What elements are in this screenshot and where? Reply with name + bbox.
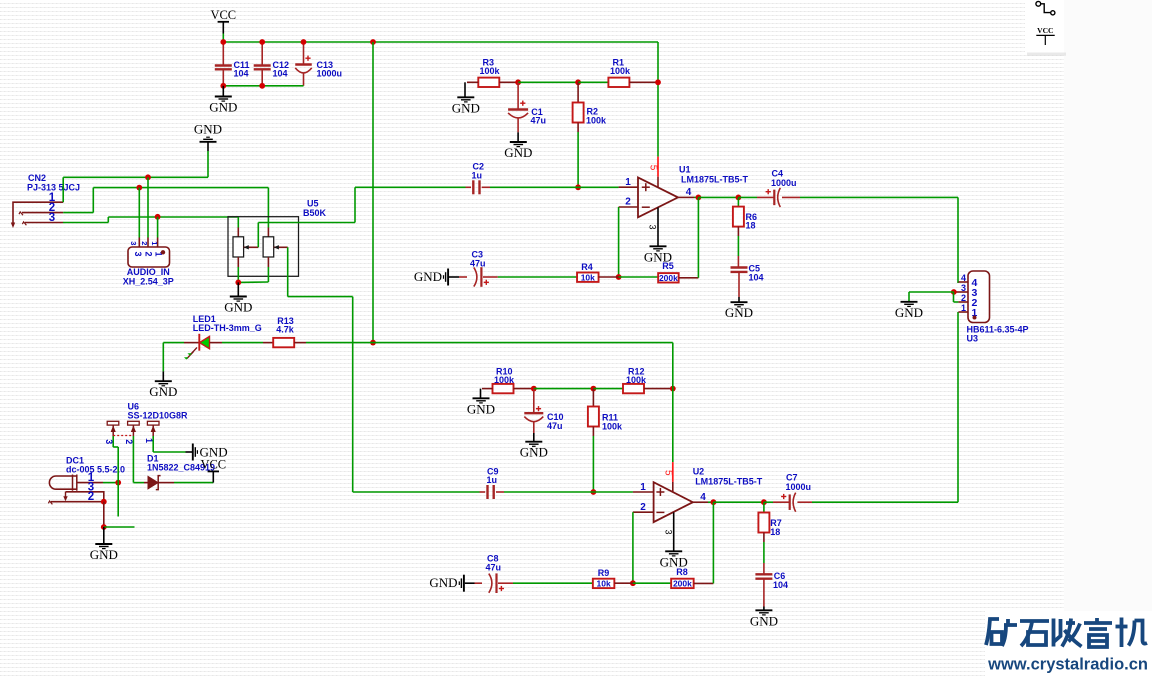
DC1 pin3 switch arm xyxy=(65,492,67,498)
svg-text:U1: U1 xyxy=(679,165,691,175)
svg-text:GND: GND xyxy=(209,100,237,115)
capacitor C13 top pin xyxy=(303,42,305,65)
wire to AUDIO_IN pin2 xyxy=(147,177,149,237)
wire C9 to node xyxy=(504,491,593,493)
wire pins23 down xyxy=(103,502,105,527)
U2 pin 4 stub xyxy=(693,501,708,503)
wire gnd down xyxy=(207,151,209,177)
junction R2/C2/U1 pin1 xyxy=(575,184,581,190)
junction VCC/C13 xyxy=(301,39,307,45)
C9 left pin xyxy=(480,491,486,493)
wire bias ch1 xyxy=(518,81,578,83)
AUDIO_IN pin 2 stub xyxy=(147,238,149,248)
pot U5 right element body xyxy=(263,237,274,257)
R6 bottom pin xyxy=(737,227,739,236)
wire R7 top xyxy=(763,502,765,512)
wire R4 to R5 xyxy=(619,276,659,278)
wire C2 to node xyxy=(490,186,578,188)
C10 top pin xyxy=(533,389,535,413)
svg-text:3: 3 xyxy=(663,529,673,534)
ground (C5) xyxy=(731,302,748,307)
svg-text:3: 3 xyxy=(104,439,114,444)
junction DC gnd xyxy=(101,524,107,530)
pot R top pin xyxy=(267,228,269,237)
ground (U1) xyxy=(650,246,667,251)
LED1 symbol xyxy=(198,334,200,351)
D1 cathode pin xyxy=(158,482,174,484)
svg-text:10k: 10k xyxy=(581,273,595,283)
connector CN2 pin 1 (tip) xyxy=(13,202,63,224)
switch U6 pin 3 pad xyxy=(107,421,119,425)
wire R wiper down xyxy=(287,247,289,296)
AUDIO_IN pin1 marker dot xyxy=(161,250,165,254)
capacitor C9 (1u) xyxy=(488,485,494,499)
C13 plus mark xyxy=(305,56,310,61)
wire gnd rail to CN2 pin1 xyxy=(63,176,208,178)
svg-text:10k: 10k xyxy=(597,579,611,589)
svg-text:47u: 47u xyxy=(470,259,486,269)
wire xyxy=(708,501,713,503)
wire DC1 pin1 xyxy=(103,482,118,484)
C1 top pin xyxy=(517,82,519,109)
resistor R2 (100k) xyxy=(573,103,584,123)
wire to AUDIO_IN pin1 xyxy=(157,217,159,238)
svg-text:3: 3 xyxy=(49,212,55,224)
svg-text:GND: GND xyxy=(149,384,177,399)
wire output to R6 xyxy=(698,196,738,198)
U1 pin 2 stub xyxy=(619,206,638,208)
svg-text:www.crystalradio.cn: www.crystalradio.cn xyxy=(987,656,1148,674)
svg-text:2: 2 xyxy=(961,293,966,303)
wire VCC to rail xyxy=(222,34,224,43)
svg-text:GND: GND xyxy=(467,401,495,416)
wire pot R bottom xyxy=(267,267,269,282)
gnd stub xyxy=(103,527,105,544)
R11 top pin xyxy=(592,389,594,407)
svg-text:GND: GND xyxy=(414,269,442,284)
resistor R3 (100k) xyxy=(478,78,499,87)
R9 right pin xyxy=(614,582,633,584)
svg-text:3: 3 xyxy=(129,241,138,245)
wire CN2 pin2 xyxy=(63,212,93,214)
R13 right pin xyxy=(294,342,306,344)
ground (R10) xyxy=(473,398,490,403)
CN2 pin2 hook contact xyxy=(19,212,23,215)
svg-text:2: 2 xyxy=(88,491,94,503)
wire rail ch2 to U2 pin5 xyxy=(672,389,674,463)
wire R wiper down to ch2 xyxy=(352,297,354,492)
svg-text:1: 1 xyxy=(150,241,159,245)
junction R11/C9/U2 pin1 xyxy=(591,489,597,495)
pot U5 right wiper xyxy=(274,246,288,248)
AUDIO_IN pin 3 stub xyxy=(138,238,140,248)
connector CN2 pin 2 xyxy=(22,212,63,214)
wire LED row to ch2 rail xyxy=(373,342,673,344)
DC1 pin 3 xyxy=(66,492,104,502)
R4 right pin xyxy=(599,276,619,278)
svg-text:2: 2 xyxy=(640,502,646,513)
C4 plus mark xyxy=(766,189,771,194)
svg-text:100k: 100k xyxy=(480,66,501,76)
C12 bottom pin xyxy=(261,69,263,86)
wire node to U2 pin1 xyxy=(593,491,633,493)
svg-text:VCC: VCC xyxy=(1037,26,1053,35)
U2 minus marker xyxy=(656,511,664,513)
svg-text:GND: GND xyxy=(90,547,118,562)
svg-text:200k: 200k xyxy=(659,273,678,283)
capacitor C12 xyxy=(254,66,271,70)
svg-text:104: 104 xyxy=(234,69,249,79)
wire jog up xyxy=(354,187,356,222)
svg-text:LM1875L-TB5-T: LM1875L-TB5-T xyxy=(695,477,763,487)
svg-text:R9: R9 xyxy=(598,568,610,578)
U1 pin 5 lower xyxy=(657,177,659,188)
R11 bottom pin xyxy=(592,427,594,437)
R12 right pin xyxy=(644,388,673,390)
wire R5 up to output xyxy=(697,197,699,277)
wire R6 top xyxy=(737,197,739,206)
connector AUDIO_IN body xyxy=(128,247,170,267)
svg-text:2: 2 xyxy=(140,241,149,245)
R8 right pin xyxy=(694,582,714,584)
gnd stem xyxy=(465,582,475,584)
R3 right pin xyxy=(499,81,518,83)
wire to R12 xyxy=(593,388,623,390)
wire C8 to R9 xyxy=(513,582,593,584)
wire pin3 jog down xyxy=(953,292,955,302)
U1 plus marker xyxy=(642,183,650,191)
wire C3 to R4 xyxy=(498,276,577,278)
junction R12/rail ch2 xyxy=(670,386,676,392)
svg-text:47u: 47u xyxy=(547,421,563,431)
wire bias ch2 xyxy=(534,388,594,390)
wire D1 to VCC xyxy=(174,482,213,484)
junction R10/C10 xyxy=(531,386,537,392)
R10 right pin xyxy=(514,388,534,390)
gnd stub xyxy=(207,142,209,151)
capacitor C6 (104) xyxy=(755,574,772,578)
pot L bottom pin xyxy=(237,257,239,267)
R2 top pin xyxy=(577,82,579,103)
panel wire-tool icon xyxy=(1036,1,1055,15)
ground (C1) xyxy=(510,142,527,147)
resistor R8 (200k) xyxy=(671,579,694,588)
svg-text:18: 18 xyxy=(770,527,780,537)
capacitor C5 (104) xyxy=(731,268,748,272)
svg-text:GND: GND xyxy=(224,300,252,315)
U1 pin 1 stub xyxy=(619,186,638,188)
wire CN2 pin1 up to gnd rail xyxy=(62,177,64,202)
wire up to U6 pin3 xyxy=(117,447,119,483)
wire U6 pin1 down xyxy=(152,436,154,452)
svg-text:3: 3 xyxy=(133,251,143,256)
resistor R7 (18) xyxy=(758,513,769,533)
wire capacitor ground bus xyxy=(223,85,303,87)
junction C11/GND xyxy=(220,83,226,89)
wire C7 to output jack xyxy=(812,501,958,503)
capacitor C1 (47u) xyxy=(508,108,528,110)
capacitor C2 (1u) xyxy=(473,180,479,194)
wire VCC rail (top) xyxy=(223,41,659,43)
D1 anode pin xyxy=(144,482,148,484)
wire LED to R13 xyxy=(222,342,263,344)
wire to R1 xyxy=(578,81,608,83)
ground (DC1) xyxy=(95,544,112,549)
svg-text:GND: GND xyxy=(504,145,532,160)
svg-text:AUDIO_IN: AUDIO_IN xyxy=(127,267,170,277)
wire pin2 up xyxy=(92,188,94,213)
ground (C10) xyxy=(525,442,542,447)
wire pot L top xyxy=(237,217,239,228)
resistor R13 (4.7k) xyxy=(273,338,294,347)
LED1 emission arrows xyxy=(187,348,197,359)
wire to AUDIO_IN pin3 xyxy=(138,188,140,238)
resistor R6 (18) xyxy=(733,207,744,227)
wire LED cathode xyxy=(163,342,184,344)
ground (C3, rotated) xyxy=(444,269,449,286)
svg-text:1: 1 xyxy=(961,303,966,313)
wire VCC down to LED row xyxy=(372,42,374,343)
wire xyxy=(694,196,698,198)
wire to C9 xyxy=(353,491,480,493)
svg-text:U5: U5 xyxy=(307,199,319,209)
svg-text:GND: GND xyxy=(452,100,480,115)
gnd stub xyxy=(237,282,239,296)
resistor R10 (100k) xyxy=(493,384,514,393)
svg-text:4: 4 xyxy=(700,492,706,503)
connector U3 body xyxy=(968,271,990,323)
DC1 pin 1 xyxy=(77,482,103,484)
ground (U2) xyxy=(665,551,682,556)
svg-text:104: 104 xyxy=(273,69,288,79)
wire xyxy=(764,501,773,503)
C5 top pin xyxy=(737,256,739,268)
wire pin3 to pot left xyxy=(108,216,238,218)
switch U6 pin 2 pad xyxy=(128,421,140,425)
capacitor C4 (1000u) xyxy=(773,190,775,206)
C11 bottom pin xyxy=(222,69,224,86)
LED cathode pin xyxy=(184,342,199,344)
C9 right pin xyxy=(496,491,504,493)
junction R3/C1 xyxy=(515,79,521,85)
wire stub down xyxy=(117,483,119,517)
wire VCC rail down to U1 pin5 xyxy=(657,42,659,157)
wire R2 to input node xyxy=(577,132,579,187)
junction R13/VCC xyxy=(370,340,376,346)
svg-text:4.7k: 4.7k xyxy=(276,325,295,335)
C7 right pin xyxy=(797,501,812,503)
junction VCC rail / LED feed xyxy=(370,39,376,45)
ground (R3) xyxy=(457,97,474,102)
C2 left pin xyxy=(466,186,472,188)
C10 plus mark xyxy=(536,406,541,411)
U2 pin3 to gnd xyxy=(673,512,675,551)
watermark background xyxy=(985,611,1152,678)
R10 left pin xyxy=(482,388,493,390)
gnd stub xyxy=(162,371,164,380)
wire U6 pin2 down xyxy=(132,436,134,483)
svg-text:1: 1 xyxy=(625,177,631,188)
DC1 pin 2 xyxy=(51,501,104,503)
svg-text:104: 104 xyxy=(749,273,764,283)
connector DC1 barrel jack xyxy=(49,476,77,489)
ground (input, inverted) xyxy=(200,137,217,142)
junction R7/C7 xyxy=(761,499,767,505)
switch U6 pin 1 pad xyxy=(147,421,159,425)
capacitor C11 xyxy=(215,66,232,70)
resistor R11 (100k) xyxy=(588,407,599,427)
svg-text:47u: 47u xyxy=(531,116,547,126)
wire pot L bottom xyxy=(237,267,239,282)
pot U5 left wiper xyxy=(244,246,259,248)
ground (LED1) xyxy=(155,381,172,386)
AUDIO_IN pin 1 stub xyxy=(157,238,159,248)
wire xyxy=(738,196,757,198)
wire stub right xyxy=(104,526,135,528)
VCC power symbol (top) xyxy=(218,21,229,23)
junction R6/C4 xyxy=(736,195,742,201)
svg-text:104: 104 xyxy=(773,580,788,590)
wire jog xyxy=(113,446,118,448)
svg-text:U2: U2 xyxy=(693,467,705,477)
wire U2 pin2 down xyxy=(632,512,634,583)
junction DC1 pins 2/3 xyxy=(101,499,107,505)
C3 left pin xyxy=(459,276,467,278)
svg-text:2: 2 xyxy=(144,251,154,256)
C4 left pin xyxy=(757,196,774,198)
potentiometer U5 outline box xyxy=(228,217,299,277)
svg-text:C7: C7 xyxy=(786,473,798,483)
U1 minus marker xyxy=(642,206,650,208)
capacitor C10 (47u) xyxy=(524,412,543,414)
C4 right pin xyxy=(782,196,800,198)
wire VCC stub xyxy=(222,22,224,34)
diode D1 (1N5822 Schottky) xyxy=(148,476,158,488)
svg-text:R4: R4 xyxy=(581,262,593,272)
svg-text:LM1875L-TB5-T: LM1875L-TB5-T xyxy=(681,175,749,185)
svg-text:18: 18 xyxy=(746,221,756,231)
capacitor C12 top pin xyxy=(261,42,263,65)
ground (C8, rotated) xyxy=(459,575,464,592)
wire to C2 xyxy=(355,186,466,188)
U3 pin 4 stub xyxy=(958,281,968,283)
svg-text:XH_2.54_3P: XH_2.54_3P xyxy=(123,277,174,287)
junction U3 pin3 gnd xyxy=(951,289,957,295)
gnd stem xyxy=(186,451,193,453)
junction pin2 / audio pin3 xyxy=(136,185,142,191)
wire R11 to input node ch2 xyxy=(592,436,594,492)
junction VCC/C11 xyxy=(220,39,226,45)
wire to gnd xyxy=(153,451,185,453)
wire C4 to output jack xyxy=(800,196,958,198)
connector CN2 pin 3 xyxy=(25,222,63,224)
capacitor C13 (1000u) xyxy=(295,63,312,65)
pot L top pin xyxy=(237,228,239,237)
gnd stem xyxy=(449,276,459,278)
wire to gnd xyxy=(464,82,466,97)
R1 right pin xyxy=(629,81,658,83)
svg-text:5: 5 xyxy=(647,165,658,171)
floating tool panel xyxy=(1025,0,1064,53)
wire R8 up to output xyxy=(712,502,714,583)
wire down to pot R top xyxy=(267,188,269,228)
wire LED to gnd xyxy=(162,343,164,372)
svg-text:GND: GND xyxy=(194,121,222,136)
GND stub xyxy=(222,86,224,96)
svg-text:1u: 1u xyxy=(472,171,483,181)
svg-text:VCC: VCC xyxy=(200,458,226,472)
C8 right pin xyxy=(498,582,513,584)
svg-text:U3: U3 xyxy=(967,334,979,344)
watermark logo (crystalradio) xyxy=(986,618,1147,648)
junction gnd rail / audio pin2 xyxy=(145,174,151,180)
junction R1/VCC rail xyxy=(655,79,661,85)
svg-text:R5: R5 xyxy=(662,261,674,271)
U1 pin 4 stub xyxy=(678,196,694,198)
C5 bottom pin xyxy=(738,272,740,297)
C1 bottom pin xyxy=(517,118,519,132)
wire R7 to C6 xyxy=(763,542,765,563)
wire to gnd xyxy=(480,389,482,398)
wire pin3 jog up xyxy=(107,217,109,223)
U1 pin3 to gnd xyxy=(657,208,659,247)
VCC power symbol (DC input) xyxy=(208,470,219,472)
C1 plus mark xyxy=(520,101,525,106)
C13 bottom pin xyxy=(303,73,305,86)
svg-text:1: 1 xyxy=(640,482,646,493)
C7 plus mark xyxy=(781,494,786,499)
svg-text:SS-12D10G8R: SS-12D10G8R xyxy=(128,411,189,421)
wire CN2 pin3 xyxy=(63,222,108,224)
resistor R5 (200k) xyxy=(658,273,679,282)
svg-text:100k: 100k xyxy=(586,116,607,126)
wire node to U1 pin1 xyxy=(578,186,619,188)
junction VCC/C12 xyxy=(259,39,265,45)
svg-text:100k: 100k xyxy=(610,66,631,76)
svg-text:dc-005 5.5-2.0: dc-005 5.5-2.0 xyxy=(66,465,125,475)
U2 pin 1 stub xyxy=(633,491,654,493)
svg-text:VCC: VCC xyxy=(210,8,236,22)
capacitor C7 (1000u) xyxy=(789,494,791,510)
R13 left pin xyxy=(263,342,273,344)
junction U1 output xyxy=(696,195,702,201)
U3 pin 3 stub xyxy=(954,291,968,293)
resistor R1 (100k) xyxy=(608,78,629,87)
svg-text:4: 4 xyxy=(961,273,966,283)
svg-text:1000u: 1000u xyxy=(786,482,812,492)
C3 right pin xyxy=(483,276,498,278)
pot R bottom pin xyxy=(267,257,269,267)
wire U3 pin3 to gnd xyxy=(909,291,954,293)
wire R wiper right xyxy=(288,296,353,298)
svg-text:2: 2 xyxy=(625,197,631,208)
LED anode pin xyxy=(210,342,223,344)
wire to U6 pin3 xyxy=(112,436,114,447)
U3 pin1 marker dot xyxy=(973,316,977,320)
svg-text:100k: 100k xyxy=(602,422,623,432)
resistor R4 (10k) xyxy=(577,273,599,282)
U2 pin 2 stub xyxy=(633,511,654,513)
C2 right pin xyxy=(482,186,490,188)
U2 pin 5 lower xyxy=(672,482,674,493)
U2 pin 5 (hot segment) xyxy=(672,462,674,482)
U6 pin3-pin2 dashed link xyxy=(113,435,133,437)
svg-text:4: 4 xyxy=(686,187,692,198)
svg-text:GND: GND xyxy=(520,445,548,460)
capacitor C3 (47u polarized) xyxy=(474,267,477,286)
wire pot bottoms joined xyxy=(238,281,268,283)
C7 left pin xyxy=(773,501,790,503)
